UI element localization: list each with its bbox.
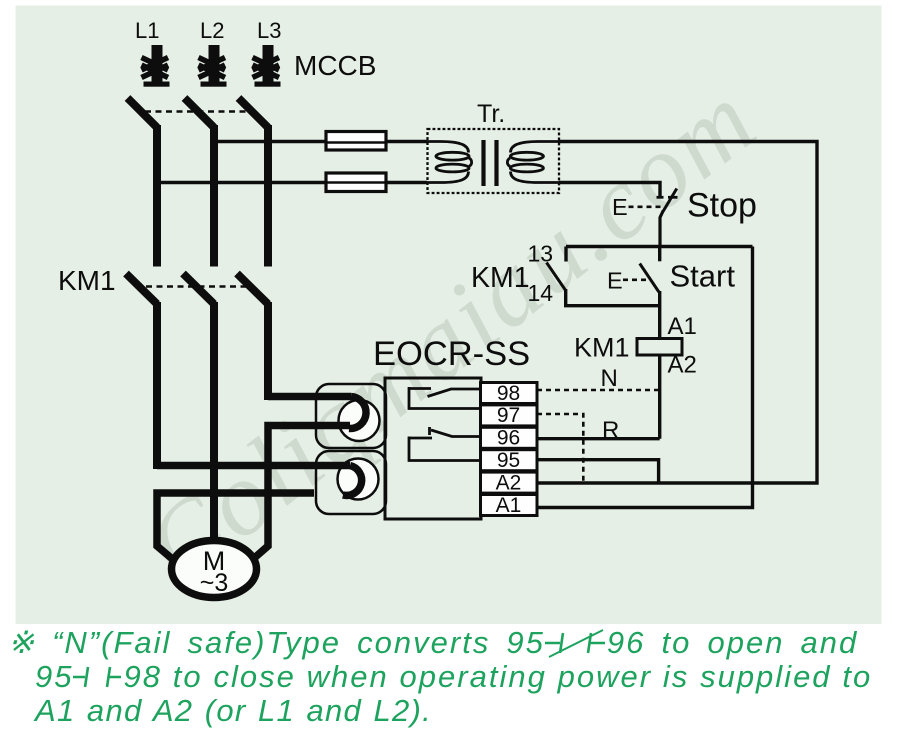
svg-text:E: E (607, 268, 623, 294)
svg-text:E: E (612, 194, 628, 220)
svg-text:KM1: KM1 (574, 333, 630, 363)
svg-text:96: 96 (497, 427, 520, 450)
svg-text:L2: L2 (200, 18, 224, 43)
svg-text:13: 13 (528, 241, 554, 267)
svg-text:R: R (602, 417, 619, 444)
svg-text:KM1: KM1 (58, 265, 116, 296)
svg-text:97: 97 (497, 404, 520, 427)
svg-text:14: 14 (528, 280, 554, 306)
svg-text:MCCB: MCCB (294, 50, 376, 81)
svg-text:98: 98 (497, 382, 520, 405)
svg-text:A1: A1 (496, 494, 522, 517)
svg-text:A2: A2 (668, 352, 697, 379)
svg-text:KM1: KM1 (471, 262, 530, 294)
svg-text:~3: ~3 (200, 569, 229, 597)
svg-text:N: N (601, 365, 618, 392)
svg-text:95: 95 (497, 449, 520, 472)
svg-text:A1: A1 (668, 313, 697, 340)
svg-text:Tr.: Tr. (477, 100, 505, 128)
svg-text:Start: Start (670, 259, 736, 294)
svg-text:L3: L3 (257, 18, 281, 43)
svg-text:A2: A2 (496, 471, 522, 494)
svg-text:Stop: Stop (687, 187, 757, 225)
svg-text:EOCR-SS: EOCR-SS (373, 335, 530, 373)
svg-text:L1: L1 (135, 18, 159, 43)
